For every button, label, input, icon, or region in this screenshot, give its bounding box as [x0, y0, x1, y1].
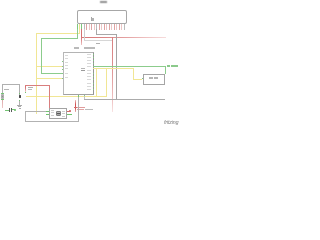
crystal pin ticks — [19, 92, 21, 95]
wire gray: LCD pin9 drop — [95, 29, 98, 33]
LCD label text (title above) — [100, 1, 107, 4]
ground symbol — [17, 104, 22, 107]
gray loop: wire right vertical x78.3 — [77, 97, 80, 122]
wire gray horizontal y99.4 — [84, 98, 165, 101]
wire yellow bottom horizontal y96.6 — [26, 95, 106, 98]
wire yellow vertical x36 — [35, 33, 38, 114]
wire red horizontal y37.2 — [81, 36, 166, 39]
gray label text after red — [85, 109, 93, 110]
tiny text under LCD pins — [96, 43, 100, 44]
wire red long vertical x112.6 — [111, 37, 114, 113]
red vertical x25.8 — [24, 85, 27, 94]
capacitor C1 plates — [9, 108, 10, 113]
U2 right green stub — [67, 113, 73, 116]
wire yellow horizontal y33.5 — [36, 32, 81, 35]
wire green vertical x41.7 — [40, 38, 43, 74]
LCD pin 2 (yellow) — [78, 24, 81, 30]
wire red: LCD pin3 drop — [80, 29, 83, 37]
wire green right y66.2 — [93, 65, 166, 68]
buzzer box BZ1 — [143, 74, 165, 85]
U2 left green stubs — [46, 110, 50, 113]
label above MCU right — [84, 47, 95, 49]
battery label text — [4, 89, 9, 90]
wire green vertical to buzzer x166 — [164, 66, 167, 74]
wire yellow: LCD pin2 drop — [78, 29, 81, 33]
wire yellow into buzzer y78.8 — [133, 78, 142, 81]
LCD pins 5-19 (red/rose) — [85, 24, 88, 30]
LCD pin 4 (gray) — [83, 24, 86, 30]
wire gray faint drop from MCU bottom pin2 — [83, 95, 86, 99]
wire gray vertical x116.4 — [115, 34, 118, 100]
fritzing watermark — [164, 120, 180, 126]
left loop top horizontal y84.4 — [2, 83, 20, 86]
MCU U1 — [63, 52, 93, 95]
U2 dark glyph — [56, 111, 61, 116]
crystal Y1 (black component) — [19, 95, 21, 98]
wire green: LCD pin1 drop — [76, 29, 79, 38]
U2 left pin labels — [51, 110, 54, 111]
small box U2 (bottom) — [49, 108, 67, 120]
wire green branch to MCU y73.2 — [41, 72, 63, 75]
red vertical x49.8 — [48, 85, 51, 109]
wire yellow right y68.2 — [93, 67, 134, 70]
LCD glyph inside — [91, 17, 92, 22]
wire below crystal — [18, 101, 21, 105]
buzzer left pin tick — [142, 77, 143, 80]
wire red stub fading above MCU — [80, 38, 83, 45]
left loop left vertical — [1, 84, 4, 93]
LCD connector J1 — [77, 10, 127, 23]
LCD pin 20 (gray) — [123, 24, 126, 30]
green tick at its bottom — [25, 92, 26, 93]
MCU center label — [81, 68, 85, 70]
capacitor C1 leads — [5, 109, 9, 112]
MCU right pin ticks — [93, 53, 94, 56]
MCU bottom pin tick green x84.2 — [84, 95, 85, 97]
LCD pin 1 (green) — [76, 24, 79, 30]
left loop right vertical (crystal wire) — [18, 84, 21, 95]
red flag x75.4 — [74, 100, 77, 112]
MCU bottom pin tick green x77.6 — [78, 95, 79, 97]
gray label text x28 y87 — [28, 87, 33, 88]
wire gray horizontal y33.8 — [96, 33, 117, 36]
capacitor C1 right lead with arrow — [12, 108, 15, 111]
wire yellow vertical x96.5 — [95, 68, 98, 97]
U2 right pin labels — [62, 111, 65, 112]
red horizontal y84.8 — [25, 84, 49, 87]
gray loop: wire top horizontal y111.6 — [25, 110, 45, 113]
MCU left pin ticks — [62, 60, 63, 63]
gray loop: wire bottom horizontal y121.3 — [25, 120, 79, 123]
wire gray faint: LCD pin4 net — [83, 29, 86, 40]
buzzer inside text — [149, 77, 152, 78]
battery BT1 — [1, 93, 5, 94]
green net label text — [167, 65, 170, 67]
label above MCU left — [74, 47, 79, 49]
U2 right red stub and dot — [67, 110, 70, 113]
MCU left pin labels — [65, 55, 69, 56]
MCU right pin labels — [87, 54, 91, 55]
gray loop: wire left vertical x25.6 — [24, 111, 27, 121]
wire yellow branch to MCU y78 — [36, 77, 64, 80]
red label text — [77, 107, 84, 108]
wire yellow branch to MCU y66 — [36, 65, 64, 68]
wire yellow jog down to buzzer — [132, 68, 135, 79]
wire green horizontal y38.3 — [41, 37, 78, 40]
wire gray below buzzer right (fading) — [164, 84, 167, 101]
wire yellow vertical x105.8 — [105, 68, 108, 97]
wire pink below battery — [1, 100, 4, 108]
LCD pin 3 (red) — [80, 24, 83, 30]
